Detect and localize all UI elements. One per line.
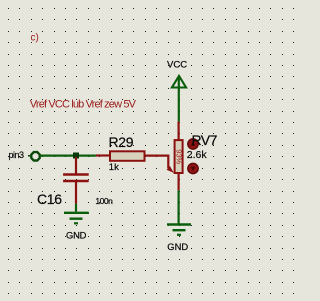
wire VCC to RV7 <box>178 77 180 122</box>
svg-text:1k: 1k <box>109 162 119 173</box>
svg-text:c): c) <box>31 33 39 44</box>
pin R29 left <box>96 154 110 156</box>
svg-text:GND: GND <box>167 241 188 252</box>
pin R29 right / wiper wire <box>146 156 169 169</box>
wire pin3 to junction <box>41 155 96 157</box>
potentiometer RV7 body <box>175 140 183 173</box>
pin RV7 bottom <box>178 173 180 190</box>
svg-text:Vref VCC lub Vref zew 5V: Vref VCC lub Vref zew 5V <box>30 99 137 111</box>
svg-text:100n: 100n <box>95 196 113 206</box>
interactive button up RV7 <box>188 139 198 149</box>
junction node <box>73 153 79 159</box>
svg-text:RV7: RV7 <box>192 132 218 148</box>
resistor R29 <box>110 151 145 161</box>
wiper arrow of RV7 <box>167 166 174 173</box>
power symbol VCC <box>172 76 186 88</box>
svg-text:2.6k: 2.6k <box>187 149 208 161</box>
ground symbol under C16 <box>64 213 89 224</box>
svg-text:pin3: pin3 <box>9 150 25 160</box>
pin terminal circle pin3 <box>31 152 39 160</box>
capacitor C16 <box>63 175 89 182</box>
pin C16 top <box>75 157 77 174</box>
svg-text:R29: R29 <box>109 134 134 150</box>
pin C16 bottom <box>75 182 77 204</box>
svg-text:GND: GND <box>66 230 87 241</box>
svg-text:93%: 93% <box>174 149 183 164</box>
wire C16 to ground <box>75 204 77 212</box>
wire RV7 to ground <box>178 190 180 223</box>
pin RV7 top <box>178 121 180 140</box>
ground symbol under RV7 <box>167 225 191 235</box>
svg-text:C16: C16 <box>37 191 62 207</box>
pin stub left of terminal <box>28 155 30 157</box>
svg-text:VCC: VCC <box>167 59 187 70</box>
interactive button down RV7 <box>188 163 198 173</box>
